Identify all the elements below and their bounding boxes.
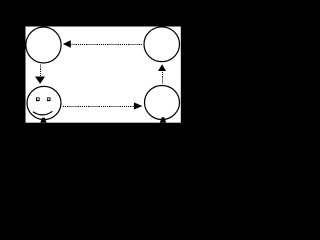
bottom-right circle bottom mark (clipped) (160, 117, 166, 122)
arrowhead pointing left at top-left circle (63, 40, 71, 48)
smiley chin dot (clipped mark at circle bottom) (40, 118, 46, 123)
wire top dotted line (top-right to top-left) (72, 44, 144, 46)
smiley mouth (33, 111, 52, 115)
arrowhead pointing down at smiley circle (35, 77, 45, 84)
node bottom-right circle (145, 86, 180, 120)
node bottom-left circle (smiley) (27, 86, 61, 119)
smiley right eye (47, 97, 51, 101)
smiley left eye (36, 97, 40, 101)
arrowhead pointing up at top-right circle (158, 64, 166, 71)
wire bottom dotted line (smiley to bottom-right) (63, 106, 134, 108)
wire right dotted line (bottom-right up to top-right) (162, 72, 164, 84)
arrowhead pointing right at bottom-right circle (134, 102, 143, 109)
wire left dotted line (top-left down to smiley) (40, 65, 42, 77)
node top-left circle (26, 27, 61, 63)
node top-right circle (144, 27, 180, 62)
white drawing area (26, 27, 181, 123)
